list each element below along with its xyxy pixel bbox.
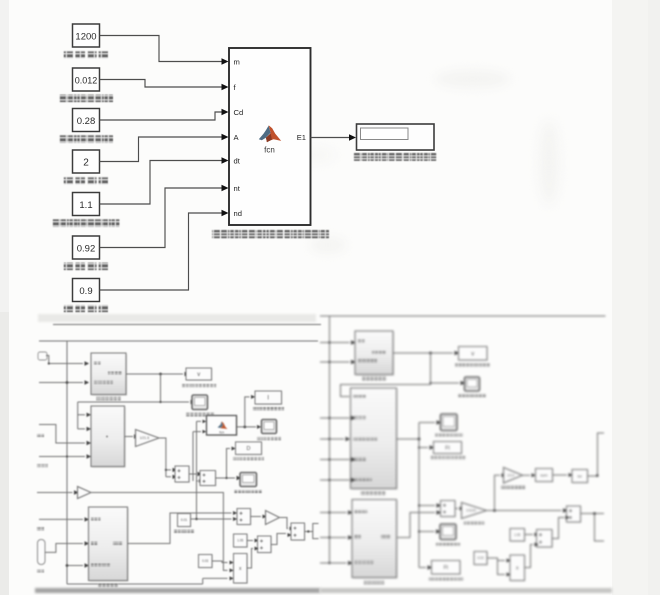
wire stub y480 [320, 479, 330, 481]
MATLAB membrane logo [259, 125, 281, 142]
wire c001->SM3 [191, 518, 232, 520]
wire stub y362 [320, 361, 330, 363]
constant C7 value 0.9 [73, 279, 100, 302]
subsystem B3 compute drive force [90, 508, 129, 582]
subsystem BR3 compute drive [330, 513, 347, 564]
subsystem BR1 compute speed [330, 343, 350, 363]
label FtR2 [429, 577, 463, 580]
label under C3 [59, 135, 113, 143]
svg-text:1/3.6: 1/3.6 [507, 473, 514, 477]
wire G2 out [91, 493, 228, 571]
label GR1 [464, 521, 484, 524]
scope S2 [262, 420, 277, 434]
wire SMR3 out [581, 514, 605, 542]
wire c003->P1 [212, 561, 228, 563]
wire left bus R [329, 316, 331, 563]
label c001 [174, 530, 194, 533]
wire to scope SR1 + loopback [341, 353, 431, 397]
wire B2->G1 [125, 436, 134, 438]
wire b105R->SMR4 [525, 534, 534, 536]
separator band between screenshots [38, 314, 316, 323]
sum SM4 [258, 537, 272, 554]
scope SR3 [440, 524, 456, 540]
wire to D [227, 449, 231, 479]
product PR1 [511, 556, 526, 582]
label D [233, 457, 264, 460]
subsystem BR2 compute resistance [352, 389, 398, 490]
block tor [573, 470, 589, 483]
label under C1 [64, 51, 108, 59]
wire SM3->G3 [251, 516, 262, 518]
wire G3->SM5 [280, 518, 289, 529]
svg-text:sum: sum [540, 473, 547, 477]
wire b105->SM4 [247, 540, 253, 542]
scope SR2 [441, 414, 458, 431]
wire GR1 out [487, 510, 562, 512]
wire stub y512.5 [320, 512, 330, 514]
wire P1->B1 [46, 356, 83, 364]
scope S1 [192, 395, 208, 410]
wire stub y563 [320, 562, 330, 564]
to-workspace I [256, 392, 283, 405]
gain GR2 [504, 468, 523, 484]
constant c003 [199, 555, 213, 568]
label B1 [96, 397, 120, 401]
label SR3 [436, 543, 460, 546]
scope S3 [240, 473, 257, 487]
gain G2 [37, 492, 73, 494]
wire stub y459.5 [320, 459, 330, 461]
label under C2 [59, 95, 113, 103]
wire BR1 out [393, 352, 453, 354]
wire C5->dt [100, 157, 229, 204]
label In4 [37, 464, 48, 468]
to-workspace vR [459, 347, 488, 361]
to-workspace FtR2 [432, 561, 461, 575]
label GR2 [501, 486, 525, 489]
U2 logo [218, 422, 224, 429]
to-workspace block v [187, 369, 213, 381]
sum SMR1 [441, 501, 456, 517]
wire P1 out->SM4 [247, 549, 253, 569]
wire In4->B2 [39, 456, 85, 458]
wire E1->display [311, 134, 357, 140]
sum SMR3 [567, 507, 581, 523]
sum SMR4 [537, 530, 553, 548]
sum SM5 [292, 524, 306, 541]
label SR2 [435, 433, 463, 436]
svg-text:0.03: 0.03 [477, 556, 483, 560]
block sum [536, 469, 553, 482]
bottom gray band [35, 588, 320, 593]
to-workspace D [236, 443, 262, 456]
wire sum->tor [553, 474, 568, 476]
constant C5 value 1.1 [73, 193, 100, 216]
svg-text:1/1100: 1/1100 [466, 509, 476, 513]
wire C4->A [100, 134, 229, 162]
wire B1 out [126, 373, 183, 375]
wire top feedback R [320, 315, 606, 317]
bracket partial block R [313, 524, 319, 539]
wire vertical bus [67, 341, 228, 584]
label S1 [186, 413, 215, 417]
inport stubs bottom [39, 518, 83, 520]
wire C3->Cd [100, 109, 229, 120]
subsystem B1 compute speed [92, 354, 127, 396]
scope SR1 [465, 377, 480, 391]
constant b105R [511, 529, 526, 542]
wire BR2 out + vertical [397, 423, 420, 568]
svg-text:tor: tor [578, 474, 583, 478]
constant b105 [234, 535, 248, 548]
constant c003R [475, 552, 488, 565]
constant C4 value 2 [73, 150, 100, 173]
label S2 [257, 437, 281, 440]
matlab fcn block U2 [208, 417, 238, 437]
right page-edge gray strip [612, 0, 660, 595]
gain G1 [136, 430, 160, 447]
constant C6 value 0.92 [73, 236, 100, 259]
wire SMR1->GR1 [455, 508, 458, 510]
svg-text:1.05: 1.05 [514, 533, 520, 537]
label BR2 [361, 492, 385, 496]
wire SM2->S3 [216, 477, 236, 479]
constant C3 value 0.28 [73, 109, 100, 132]
to-workspace FtR1 [434, 442, 462, 454]
wire vertical into fcn2/SM2 [193, 421, 201, 519]
label under C5 [53, 219, 120, 227]
wire long feedback B [39, 340, 318, 342]
label FtR1 [431, 456, 465, 459]
wire C7->nd [100, 210, 229, 290]
label I [253, 407, 284, 410]
label v [182, 384, 216, 387]
wire U2 out [237, 426, 256, 428]
product P1 [234, 554, 248, 584]
wire GR2->sum block [523, 474, 531, 476]
wire branch to scope S1 and loopback [78, 374, 189, 402]
sum SM1 [176, 467, 190, 483]
wire stub y418 [320, 417, 330, 419]
label SR1 [458, 394, 486, 397]
wire tor out bracket [588, 433, 605, 476]
wire SM5 out [305, 531, 313, 533]
wire stub y537.5 [320, 537, 330, 539]
wire SM4->SM5 [271, 534, 286, 545]
gain G3 [266, 511, 280, 525]
wire PR1 out->SMR4 [525, 545, 534, 568]
wire BR3 out->SMR1 [397, 513, 436, 538]
constant c001 [178, 514, 191, 527]
constant C1 value 1200 [73, 24, 100, 47]
wire stub y439 [320, 438, 330, 440]
subsystem B2 [92, 407, 126, 468]
wire C6->nt [100, 185, 229, 248]
wire C1->m [100, 36, 229, 65]
inport P1 [38, 352, 47, 360]
gain GR1 mass reciprocal [462, 503, 487, 519]
display block D1 [357, 124, 435, 150]
wire C2->f [100, 80, 229, 91]
label BR1 [362, 377, 386, 381]
sum SM2 [201, 471, 217, 486]
wire SMR4->SMR3 [552, 518, 565, 539]
wire long feedback A [53, 324, 321, 326]
wire stub y342.5 [320, 342, 330, 344]
svg-text:v: v [471, 351, 474, 357]
sum SM3 [238, 509, 252, 525]
svg-text:Ft: Ft [445, 445, 450, 451]
wire G1->sum1 [159, 438, 171, 477]
label vR [455, 364, 490, 367]
label under D1 (10 chars) [354, 153, 436, 161]
wire In2->B1 [39, 382, 83, 384]
label under C4 [64, 177, 108, 185]
svg-text:Ft: Ft [444, 565, 449, 571]
label B3 [98, 584, 118, 588]
left page-edge gray strip [0, 0, 9, 315]
faint page bleed smudges [435, 70, 510, 88]
wire B3 out [128, 513, 232, 544]
label In3 [37, 434, 44, 438]
label under C6 [64, 263, 108, 271]
label under C7 [64, 305, 108, 313]
wire bus->BR2 inputs [330, 418, 350, 480]
wire lower into PR1 [498, 561, 506, 575]
constant C2 value 0.012 [73, 68, 100, 91]
label under U1 (13 chars) [212, 230, 329, 238]
wire In3->B2 [39, 425, 85, 444]
label BR3 [364, 581, 384, 585]
label S3 [234, 490, 262, 493]
MATLAB function block U1 [229, 48, 311, 225]
wire c003R->PR1 [487, 558, 505, 561]
wire SM1->SM2 [189, 473, 196, 475]
